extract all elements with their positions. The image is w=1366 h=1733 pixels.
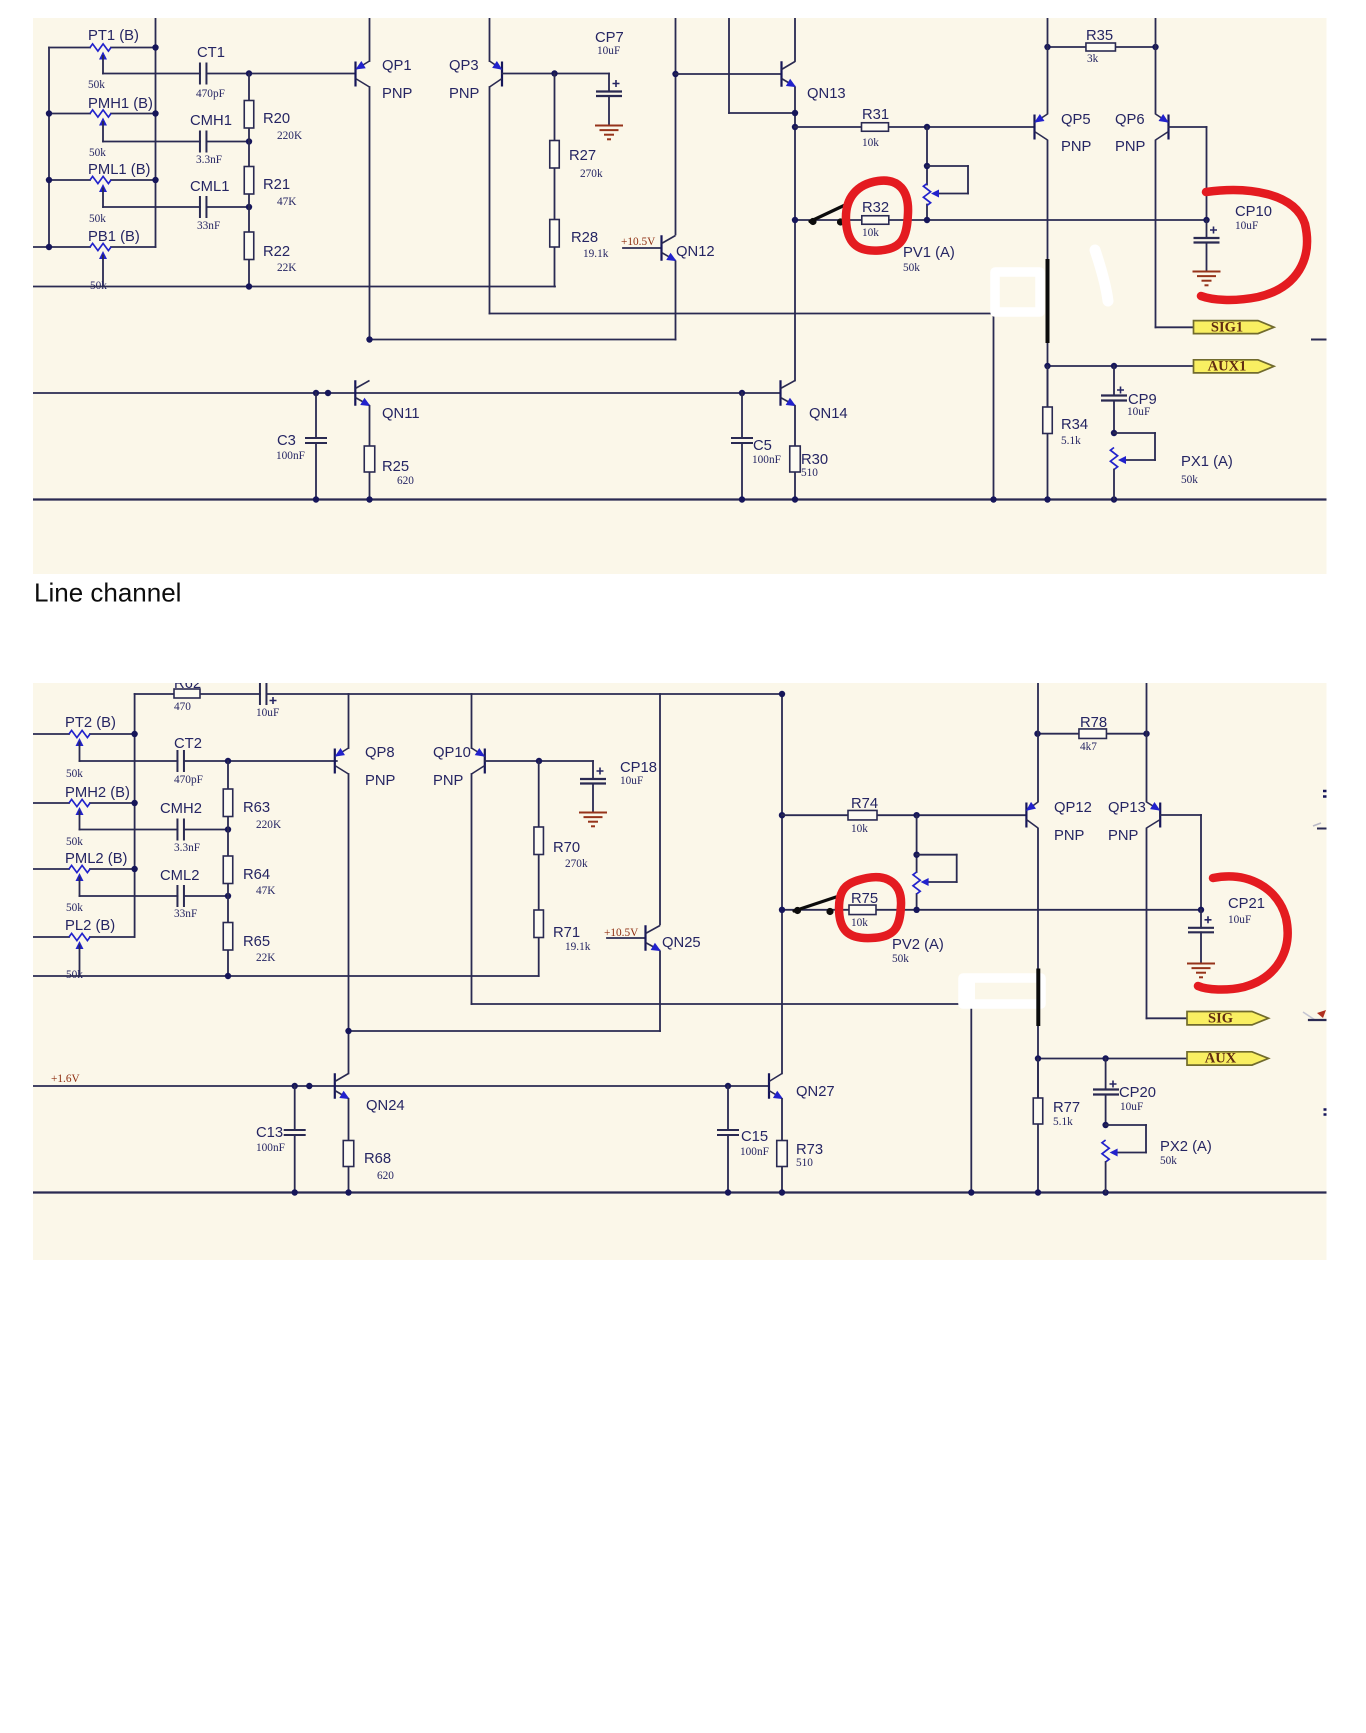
svg-text:R71: R71 (553, 925, 580, 941)
svg-text:PT2 (B): PT2 (B) (65, 715, 116, 731)
label R77 (1053, 1100, 1080, 1116)
wire PB1 left stub (33, 246, 49, 248)
value R25 620 (397, 475, 414, 487)
black marker dot left sch2 (794, 907, 801, 914)
svg-text:50k: 50k (1160, 1155, 1177, 1167)
potentiometer PB1 (90, 243, 111, 286)
resistor R34 (1043, 407, 1053, 434)
svg-text:100nF: 100nF (740, 1146, 769, 1158)
label +1.6V (51, 1073, 80, 1085)
ground CP7 (595, 126, 623, 140)
label QP13 PNP (1108, 828, 1139, 844)
label PMH1 (B) (88, 96, 153, 112)
label R28 (571, 230, 598, 246)
wire QN11-QN12 link y=339.5 (370, 339, 676, 341)
wire pot left bus vertical (48, 48, 50, 248)
svg-text:50k: 50k (88, 79, 105, 91)
label QN24 (366, 1098, 405, 1114)
svg-text:10k: 10k (862, 137, 879, 149)
white eraser blob annotation sch2 (963, 978, 1041, 1004)
label +10.5V sch2 (604, 927, 639, 939)
resistor R62 (174, 689, 200, 698)
svg-text:QP5: QP5 (1061, 112, 1091, 128)
label R31 (862, 107, 889, 123)
wire QN13 collector vertical (794, 18, 796, 61)
label R25 (382, 459, 409, 475)
wire AUX1 lead (1048, 365, 1194, 367)
value R65 22K (256, 952, 276, 964)
resistor R75 (849, 905, 876, 915)
node C13 junction (292, 1083, 298, 1089)
potentiometer PML1 (90, 176, 111, 207)
wire PV1 wiper loop (927, 166, 968, 194)
wire PX1 wiper loop (1114, 433, 1155, 460)
transistor QP10 PNP (472, 748, 488, 774)
node R22 bottom junction (246, 283, 252, 289)
svg-text:50k: 50k (66, 768, 83, 780)
svg-text:470: 470 (174, 701, 191, 713)
schematic sheet 2 background (33, 683, 1327, 1260)
value PX1 50k (1181, 474, 1198, 486)
label R71 (553, 925, 580, 941)
svg-text:50k: 50k (66, 902, 83, 914)
ground CP10 (1193, 272, 1221, 286)
wire PV2 wiper loop (917, 855, 957, 882)
value CP18 10uF (620, 775, 643, 787)
svg-text:R73: R73 (796, 1142, 823, 1158)
label CT1 (197, 45, 225, 61)
capacitor C15 (717, 1086, 739, 1193)
wire bottom rail y=976 (33, 975, 539, 977)
capacitor CP10 polarized (1194, 220, 1220, 270)
transistor QP12 PNP (1023, 802, 1038, 828)
svg-text:PX1 (A): PX1 (A) (1181, 454, 1233, 470)
svg-text:10uF: 10uF (1228, 914, 1251, 926)
value PV1 50k (903, 262, 920, 274)
svg-text:50k: 50k (1181, 474, 1198, 486)
svg-text:510: 510 (796, 1157, 813, 1169)
svg-text:5.1k: 5.1k (1061, 435, 1081, 447)
wire bottom bus y=499.5 (33, 498, 1327, 500)
label QP13 (1108, 800, 1146, 816)
label QP6 PNP (1115, 139, 1146, 155)
wire QP3 collector vertical (489, 87, 491, 314)
capacitor CMH2 (177, 819, 184, 841)
capacitor C top 10uF (260, 683, 277, 705)
svg-text:PNP: PNP (1108, 828, 1139, 844)
label PMH2 (B) (65, 785, 130, 801)
svg-text:R63: R63 (243, 800, 270, 816)
label QP12 PNP (1054, 828, 1085, 844)
node bus junctions (313, 496, 1117, 502)
wire QP3 base to CP7 (502, 73, 609, 75)
label R74 (851, 796, 878, 812)
node R32 left junction (792, 217, 798, 223)
wire x=729 vertical (729, 18, 795, 113)
node CP21 junction (1198, 907, 1204, 913)
svg-text:R20: R20 (263, 111, 290, 127)
wire pot right bus vertical x=155 (155, 18, 157, 247)
svg-text:QP13: QP13 (1108, 800, 1146, 816)
node CT1-R20 junction (246, 70, 252, 76)
wire CT1 row y=73.5 (103, 73, 356, 75)
white eraser streak (1095, 250, 1108, 301)
label CT2 (174, 736, 202, 752)
svg-text:10uF: 10uF (597, 45, 620, 57)
svg-text:QN11: QN11 (382, 406, 420, 422)
svg-text:PNP: PNP (382, 86, 413, 102)
svg-text:PT1 (B): PT1 (B) (88, 28, 139, 44)
wire R63-R65 column (227, 761, 229, 976)
value R75 10k (851, 917, 868, 929)
label PT1 (B) (88, 28, 139, 44)
label QP3 (449, 58, 479, 74)
wire QN12 emitter vertical (675, 262, 677, 340)
wire PMH2 row (33, 802, 135, 804)
svg-text:470pF: 470pF (174, 774, 203, 786)
wire R78 row (1038, 733, 1147, 735)
wire CML2 row y=896 (80, 895, 229, 897)
capacitor C13 (284, 1086, 306, 1193)
capacitor CP20 polarized (1093, 1059, 1119, 1126)
white eraser rectangle annotation (995, 272, 1040, 312)
svg-text:R75: R75 (851, 891, 878, 907)
label QP5 (1061, 112, 1091, 128)
capacitor CP18 polarized (580, 761, 606, 811)
wire PML1 row (49, 179, 156, 181)
svg-text:R68: R68 (364, 1151, 391, 1167)
node PT2 right junction (131, 731, 137, 737)
value R22 22K (277, 262, 297, 274)
svg-text:QP10: QP10 (433, 745, 471, 761)
node PX1 top junction (1111, 430, 1117, 436)
label R21 (263, 177, 290, 193)
label PML2 (B) (65, 851, 128, 867)
capacitor C5 (731, 393, 753, 500)
wire QP5 collector vertical (1047, 141, 1049, 500)
resistor R77 (1033, 1098, 1043, 1124)
node R74 left junction (779, 812, 785, 818)
resistor R71 (534, 910, 544, 938)
wire QP13 collector vertical (1146, 829, 1148, 1019)
svg-text:SIG: SIG (1208, 1010, 1233, 1026)
wire top rail y=694 (135, 694, 782, 937)
wire R27-R28 column (554, 74, 556, 287)
label PX2 (A) (1160, 1139, 1212, 1155)
svg-text:QN13: QN13 (807, 86, 846, 102)
svg-text:620: 620 (377, 1170, 394, 1182)
wire base rail y=393 (33, 392, 781, 394)
label QP10 PNP (433, 773, 464, 789)
label C3 (277, 433, 296, 449)
svg-text:100nF: 100nF (256, 1142, 285, 1154)
svg-text:270k: 270k (565, 858, 588, 870)
value R21 47K (277, 196, 297, 208)
svg-text:QN12: QN12 (676, 244, 715, 260)
label QP8 PNP (365, 773, 396, 789)
resistor R21 (244, 167, 254, 195)
potentiometer PMH2 (69, 799, 90, 829)
resistor R34 wire (1047, 366, 1049, 407)
node bus junctions sch2 (292, 1189, 1109, 1195)
potentiometer PMH1 (90, 110, 111, 142)
svg-text:50k: 50k (89, 213, 106, 225)
svg-text:R30: R30 (801, 452, 828, 468)
potentiometer PT1 row wire (49, 47, 156, 49)
label R78 (1080, 715, 1107, 731)
svg-text:47K: 47K (277, 196, 297, 208)
svg-text:270k: 270k (580, 168, 603, 180)
value C3 100nF (276, 450, 305, 462)
label PL2 (B) (65, 918, 115, 934)
wire QP6 collector vertical (1155, 141, 1157, 328)
svg-text:10uF: 10uF (256, 707, 279, 719)
resistor R22 (244, 232, 254, 260)
wire QP5 emitter vertical (1047, 18, 1049, 114)
value PX2 50k (1160, 1155, 1177, 1167)
node R78 left junction (1034, 731, 1040, 737)
node C5 junction (739, 390, 745, 396)
svg-text:R70: R70 (553, 840, 580, 856)
svg-text:5.1k: 5.1k (1053, 1116, 1073, 1128)
label CMH1 (190, 113, 232, 129)
label QN12 (676, 244, 715, 260)
svg-text:CMH2: CMH2 (160, 801, 202, 817)
value R74 10k (851, 823, 868, 835)
label PV2 (A) (892, 937, 944, 953)
svg-text:QP3: QP3 (449, 58, 479, 74)
ground CP18 (579, 813, 607, 827)
wire QN12 collector vertical (675, 18, 677, 235)
label QN25 (662, 935, 701, 951)
value PV2 50k (892, 953, 909, 965)
node PML2 right junction (131, 866, 137, 872)
wire QP12 emitter vertical (1037, 683, 1039, 802)
node R78 right junction (1143, 731, 1149, 737)
node PV2 bottom junction (913, 907, 919, 913)
wire R74 R75 vertical x=782 (781, 694, 783, 1073)
wire QP12 collector vertical (1037, 829, 1039, 1193)
black marker dot left (809, 218, 816, 225)
resistor R64 (223, 856, 233, 884)
transistor QP3 PNP (490, 61, 505, 87)
label C13 (256, 1125, 283, 1141)
value CML2 33nF (174, 908, 197, 920)
ground CP21 (1187, 964, 1215, 978)
wire PV1 column (926, 127, 928, 220)
wire PV2 column (916, 815, 918, 910)
fragment right edge colon bottom (1324, 1110, 1327, 1115)
svg-text:C15: C15 (741, 1129, 768, 1145)
red circle around R32 (846, 181, 908, 251)
wire QP10 base to CP18 (485, 760, 593, 762)
capacitor C3 (305, 393, 327, 500)
label R32 (862, 200, 889, 216)
svg-text:620: 620 (397, 475, 414, 487)
svg-text:3.3nF: 3.3nF (196, 154, 222, 166)
label QP5 PNP (1061, 139, 1092, 155)
value PB1 50k (90, 280, 107, 292)
node base rail second junction (306, 1083, 312, 1089)
wire CT2 row y=761 (80, 760, 337, 762)
wire QN14 emitter vertical (794, 406, 796, 500)
value C13 100nF (256, 1142, 285, 1154)
node QN11 collector junction (366, 336, 372, 342)
value PMH1 50k (89, 147, 106, 159)
svg-text:+1.6V: +1.6V (51, 1073, 80, 1085)
red circle around CP10 (1201, 190, 1307, 300)
node PX2 top junction (1102, 1122, 1108, 1128)
svg-text:19.1k: 19.1k (583, 248, 609, 260)
svg-text:CML1: CML1 (190, 179, 229, 195)
wire base rail y=1086 (33, 1085, 769, 1087)
wire SIG1 lead (1156, 326, 1194, 328)
port SIG (1187, 1010, 1269, 1026)
svg-text:QN27: QN27 (796, 1084, 835, 1100)
capacitor CP21 polarized (1188, 910, 1214, 962)
wire QN12 base (623, 247, 662, 249)
svg-text:3.3nF: 3.3nF (174, 842, 200, 854)
svg-text:QP1: QP1 (382, 58, 412, 74)
svg-text:PX2 (A): PX2 (A) (1160, 1139, 1212, 1155)
node PMH2 right junction (131, 800, 137, 806)
resistor R27 (550, 141, 560, 169)
svg-text:R31: R31 (862, 107, 889, 123)
node R35 left junction (1044, 44, 1050, 50)
value PT1 50k (88, 79, 105, 91)
node PB1 left junction (46, 244, 52, 250)
value CP20 10uF (1120, 1101, 1143, 1113)
value R28 19.1k (583, 248, 609, 260)
wire R75 row y=909.8 (782, 909, 1201, 911)
value CP10 10uF (1235, 220, 1258, 232)
value CT2 470pF (174, 774, 203, 786)
svg-text:33nF: 33nF (197, 220, 220, 232)
svg-text:CP20: CP20 (1119, 1085, 1156, 1101)
label CML1 (190, 179, 229, 195)
wire R35 row (1048, 46, 1156, 48)
value R62 470 (174, 701, 191, 713)
value PT2 50k (66, 768, 83, 780)
svg-text:R64: R64 (243, 867, 270, 883)
resistor R74 (848, 810, 877, 820)
label QP8 (365, 745, 395, 761)
svg-text:CML2: CML2 (160, 868, 199, 884)
transistor QP13 PNP (1147, 802, 1163, 828)
label CML2 (160, 868, 199, 884)
svg-text:CT2: CT2 (174, 736, 202, 752)
svg-text:50k: 50k (66, 836, 83, 848)
wire PX2 wiper loop (1106, 1125, 1146, 1153)
resistor R70 (534, 827, 544, 855)
svg-text:R22: R22 (263, 244, 290, 260)
node PV1 bottom junction (924, 217, 930, 223)
potentiometer PV1 (923, 184, 939, 206)
wire QP1 emitter vertical (369, 18, 371, 61)
svg-text:PNP: PNP (1115, 139, 1146, 155)
svg-text:100nF: 100nF (752, 454, 781, 466)
svg-text:4k7: 4k7 (1080, 741, 1097, 753)
label QN11 (382, 406, 420, 422)
svg-text:50k: 50k (66, 969, 83, 981)
transistor QN12 NPN (662, 235, 679, 265)
value top cap 10uF (256, 707, 279, 719)
node C3 junction (313, 390, 319, 396)
svg-text:PNP: PNP (449, 86, 480, 102)
svg-text:PNP: PNP (1061, 139, 1092, 155)
svg-text:QN14: QN14 (809, 406, 848, 422)
svg-text:47K: 47K (256, 885, 276, 897)
node AUX junctions (1035, 1055, 1109, 1061)
svg-text:R62: R62 (174, 676, 201, 692)
svg-text:CP7: CP7 (595, 30, 624, 46)
svg-text:R78: R78 (1080, 715, 1107, 731)
black marker dot right (837, 218, 844, 225)
value CP9 10uF (1127, 406, 1150, 418)
port AUX1 (1194, 359, 1275, 375)
label QN14 (809, 406, 848, 422)
label CP20 (1119, 1085, 1156, 1101)
svg-text:10uF: 10uF (620, 775, 643, 787)
svg-text:22K: 22K (256, 952, 276, 964)
value R63 220K (256, 819, 282, 831)
label QP6 (1115, 112, 1145, 128)
potentiometer PV2 (913, 872, 929, 894)
resistor R77 wire (1037, 1059, 1039, 1099)
capacitor CT1 (200, 63, 207, 85)
node R65 bottom junction (225, 973, 231, 979)
capacitor CP9 polarized (1101, 366, 1127, 433)
svg-text:QP8: QP8 (365, 745, 395, 761)
value CMH1 3.3nF (196, 154, 222, 166)
node R74-PV2 junction (913, 812, 919, 818)
capacitor CMH1 (200, 131, 207, 153)
wire PMH1 row (49, 113, 156, 115)
node R35 right junction (1152, 44, 1158, 50)
svg-text:QP12: QP12 (1054, 800, 1092, 816)
red circle around CP21 (1198, 876, 1288, 989)
wire SIG lead (1147, 1017, 1188, 1019)
transistor QN13 NPN (782, 61, 799, 91)
label CP9 (1128, 392, 1157, 408)
value CMH2 3.3nF (174, 842, 200, 854)
fragment right edge SIG row (1303, 1010, 1327, 1020)
label CMH2 (160, 801, 202, 817)
label CP21 (1228, 896, 1265, 912)
value R68 620 (377, 1170, 394, 1182)
resistor R78 (1079, 729, 1107, 739)
label R75 (851, 891, 878, 907)
label QP1 (382, 58, 412, 74)
label +10.5V (621, 236, 656, 248)
svg-text:10k: 10k (851, 823, 868, 835)
label PX1 (A) (1181, 454, 1233, 470)
svg-text:PL2 (B): PL2 (B) (65, 918, 115, 934)
label R64 (243, 867, 270, 883)
label CP18 (620, 760, 657, 776)
svg-text:CP18: CP18 (620, 760, 657, 776)
label C15 (741, 1129, 768, 1145)
svg-text:PV1 (A): PV1 (A) (903, 245, 955, 261)
node C15 junction (725, 1083, 731, 1089)
label R63 (243, 800, 270, 816)
fragment right edge colon top (1323, 791, 1327, 797)
node PMH1 junctions (46, 110, 159, 116)
svg-text:22K: 22K (277, 262, 297, 274)
label R20 (263, 111, 290, 127)
svg-text:SIG1: SIG1 (1211, 319, 1243, 335)
wire bottom bus y=1192.5 (33, 1191, 1327, 1193)
